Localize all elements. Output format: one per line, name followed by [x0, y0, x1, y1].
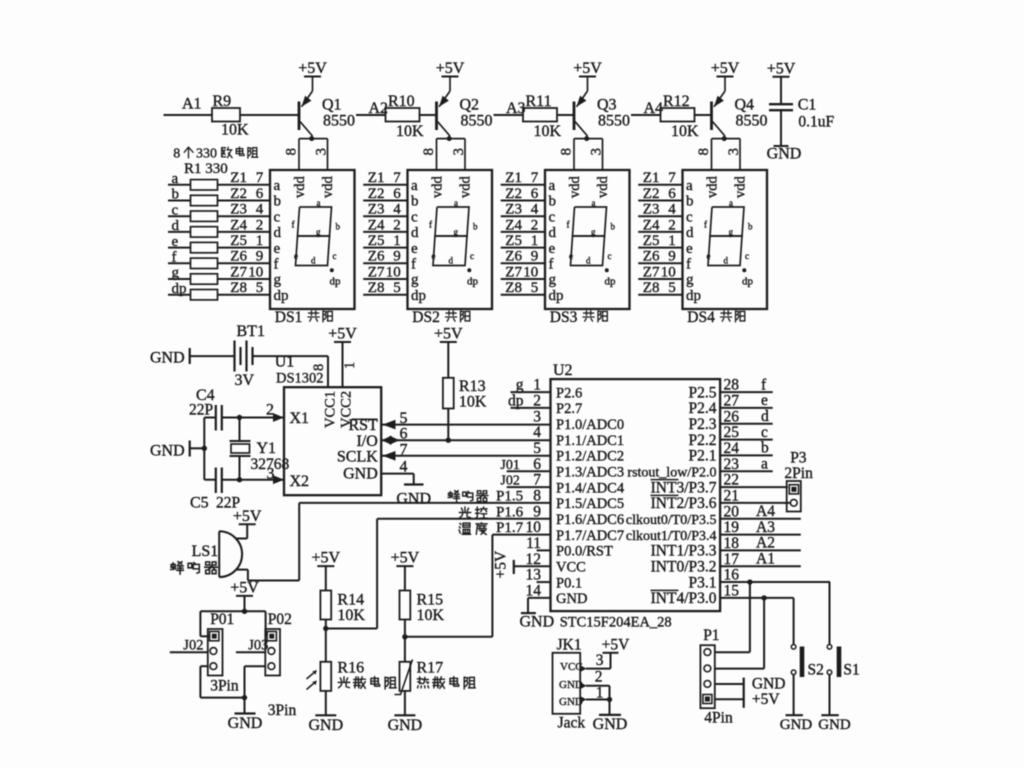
svg-text:d: d: [274, 225, 282, 241]
svg-text:f: f: [411, 257, 416, 273]
svg-text:10K: 10K: [459, 394, 487, 411]
svg-text:GND: GND: [559, 679, 583, 691]
svg-text:A4: A4: [644, 100, 664, 117]
svg-text:GND: GND: [752, 676, 786, 693]
svg-text:+5V: +5V: [312, 550, 341, 567]
svg-text:+5V: +5V: [434, 326, 463, 343]
svg-text:GND: GND: [150, 350, 185, 367]
svg-text:f: f: [429, 220, 432, 230]
svg-text:7: 7: [400, 441, 408, 458]
svg-text:dp: dp: [274, 288, 289, 304]
svg-text:e: e: [761, 392, 768, 409]
svg-text:e: e: [569, 251, 573, 261]
svg-text:c: c: [411, 209, 418, 225]
svg-text:a: a: [317, 198, 321, 208]
svg-text:c: c: [333, 251, 337, 261]
svg-text:a: a: [411, 178, 418, 194]
svg-text:a: a: [454, 198, 458, 208]
svg-text:P1.0/ADC0: P1.0/ADC0: [556, 417, 624, 433]
svg-text:b: b: [761, 440, 769, 457]
svg-text:dp: dp: [549, 288, 564, 304]
svg-text:GND: GND: [818, 717, 851, 733]
svg-text:dp: dp: [411, 288, 426, 304]
svg-text:8550: 8550: [736, 113, 768, 130]
svg-text:LS1: LS1: [192, 543, 219, 560]
svg-text:DS4: DS4: [687, 309, 715, 326]
svg-text:+5V: +5V: [233, 508, 262, 525]
svg-text:5: 5: [400, 410, 408, 427]
svg-text:GND: GND: [556, 591, 587, 607]
svg-text:d: d: [411, 225, 419, 241]
svg-text:b: b: [748, 222, 753, 232]
svg-text:c: c: [761, 424, 768, 441]
svg-text:0.1uF: 0.1uF: [798, 113, 834, 130]
svg-text:2: 2: [266, 402, 274, 419]
svg-text:dp: dp: [330, 276, 342, 288]
svg-text:g: g: [549, 272, 557, 288]
svg-text:vdd: vdd: [733, 176, 749, 199]
svg-text:8: 8: [284, 148, 300, 156]
svg-text:e: e: [432, 251, 436, 261]
svg-text:R13: R13: [459, 378, 486, 395]
svg-text:C5: C5: [190, 495, 209, 512]
svg-text:P3.1: P3.1: [689, 574, 717, 591]
svg-text:R17: R17: [417, 660, 444, 677]
svg-text:JK1: JK1: [557, 636, 582, 653]
svg-text:3: 3: [596, 652, 604, 669]
svg-text:5: 5: [533, 440, 541, 457]
svg-text:INT3/P3.7: INT3/P3.7: [651, 479, 717, 496]
svg-text:GND: GND: [388, 717, 423, 734]
svg-text:32768: 32768: [251, 456, 290, 473]
svg-text:g: g: [411, 272, 419, 288]
svg-text:8550: 8550: [323, 113, 355, 130]
svg-text:8: 8: [173, 147, 180, 162]
svg-text:P1.6/ADC6: P1.6/ADC6: [556, 512, 624, 528]
svg-text:8: 8: [311, 364, 327, 371]
svg-text:P0.0/RST: P0.0/RST: [556, 544, 613, 560]
svg-text:4: 4: [533, 424, 541, 441]
svg-text:Q1: Q1: [322, 97, 342, 114]
svg-text:3Pin: 3Pin: [268, 702, 297, 719]
svg-text:+5V: +5V: [436, 60, 465, 77]
svg-text:e: e: [707, 251, 711, 261]
svg-text:+5V: +5V: [328, 326, 357, 343]
svg-text:DS2: DS2: [412, 309, 440, 326]
svg-text:DS1302: DS1302: [276, 371, 324, 387]
svg-text:DS1: DS1: [275, 309, 303, 326]
svg-text:INT2/P3.6: INT2/P3.6: [651, 495, 717, 512]
svg-text:GND: GND: [520, 613, 555, 630]
svg-text:+5V: +5V: [493, 550, 510, 578]
svg-text:+5V: +5V: [767, 60, 796, 77]
svg-text:c: c: [470, 251, 474, 261]
svg-text:3: 3: [589, 148, 605, 156]
svg-text:R15: R15: [417, 592, 444, 609]
svg-text:g: g: [591, 227, 596, 237]
svg-text:C1: C1: [798, 96, 817, 113]
svg-text:vdd: vdd: [320, 176, 336, 199]
svg-text:A2: A2: [369, 100, 389, 117]
svg-text:+5V: +5V: [573, 60, 602, 77]
svg-text:+5V: +5V: [711, 60, 740, 77]
svg-text:rstout_low/P2.0: rstout_low/P2.0: [627, 465, 716, 480]
svg-text:3: 3: [726, 148, 742, 156]
svg-text:a: a: [729, 198, 733, 208]
svg-text:A2: A2: [756, 535, 775, 552]
svg-text:330: 330: [196, 147, 217, 162]
svg-text:P2.6: P2.6: [556, 385, 582, 401]
svg-text:R1 330: R1 330: [184, 161, 228, 177]
svg-text:vdd: vdd: [429, 176, 445, 199]
svg-text:GND: GND: [767, 146, 802, 163]
svg-text:DS3: DS3: [550, 309, 578, 326]
svg-text:10K: 10K: [534, 123, 562, 140]
svg-text:P1.3/ADC3: P1.3/ADC3: [556, 464, 624, 480]
svg-text:VCC1: VCC1: [323, 391, 339, 428]
svg-text:c: c: [608, 251, 612, 261]
svg-text:8: 8: [696, 148, 712, 156]
svg-text:GND: GND: [150, 443, 185, 460]
svg-text:R16: R16: [337, 660, 364, 677]
svg-text:b: b: [473, 222, 478, 232]
svg-text:g: g: [686, 272, 694, 288]
svg-text:INT4/P3.0: INT4/P3.0: [651, 590, 717, 607]
svg-text:P01: P01: [210, 611, 234, 628]
svg-text:STC15F204EA_28: STC15F204EA_28: [560, 614, 672, 630]
svg-text:2Pin: 2Pin: [784, 465, 813, 482]
svg-text:P02: P02: [268, 611, 292, 628]
svg-text:Q3: Q3: [597, 97, 617, 114]
svg-text:c: c: [686, 209, 693, 225]
svg-text:dp: dp: [467, 276, 479, 288]
svg-text:e: e: [686, 241, 693, 257]
svg-text:f: f: [274, 257, 279, 273]
svg-text:f: f: [292, 220, 295, 230]
svg-text:d: d: [549, 225, 557, 241]
svg-text:dp: dp: [742, 276, 754, 288]
svg-text:10K: 10K: [671, 123, 699, 140]
svg-text:S1: S1: [843, 662, 859, 679]
svg-text:A3: A3: [756, 519, 775, 536]
svg-text:dp: dp: [686, 288, 701, 304]
svg-text:SCLK: SCLK: [337, 449, 378, 466]
svg-text:BT1: BT1: [237, 323, 265, 340]
svg-text:P1.7/ADC7: P1.7/ADC7: [556, 528, 624, 544]
svg-text:P2.3: P2.3: [689, 416, 717, 433]
svg-text:P1.4/ADC4: P1.4/ADC4: [556, 480, 625, 496]
svg-text:GND: GND: [593, 716, 628, 733]
svg-text:g: g: [729, 227, 734, 237]
svg-text:d: d: [724, 256, 729, 266]
svg-text:4Pin: 4Pin: [704, 710, 733, 727]
svg-text:f: f: [549, 257, 554, 273]
svg-text:P1: P1: [703, 627, 719, 644]
svg-text:Jack: Jack: [558, 714, 586, 731]
svg-text:Y1: Y1: [257, 440, 277, 457]
svg-text:a: a: [761, 455, 768, 472]
svg-text:10K: 10K: [396, 123, 424, 140]
svg-text:4: 4: [400, 458, 408, 475]
svg-text:X1: X1: [290, 410, 310, 427]
svg-text:d: d: [449, 256, 454, 266]
svg-text:f: f: [567, 220, 570, 230]
svg-text:10K: 10K: [221, 122, 249, 139]
svg-text:vdd: vdd: [292, 176, 308, 199]
svg-text:22P: 22P: [189, 402, 213, 419]
svg-text:GND: GND: [559, 696, 583, 708]
svg-text:VCC: VCC: [556, 559, 586, 575]
svg-text:g: g: [274, 272, 282, 288]
svg-text:vdd: vdd: [458, 176, 474, 199]
svg-text:INT1/P3.3: INT1/P3.3: [651, 543, 717, 560]
svg-text:R11: R11: [526, 93, 552, 110]
svg-text:+5V: +5V: [298, 60, 327, 77]
svg-text:R14: R14: [337, 592, 364, 609]
svg-text:P2.4: P2.4: [689, 400, 717, 417]
svg-text:vdd: vdd: [704, 176, 720, 199]
svg-text:g: g: [316, 227, 321, 237]
svg-text:d: d: [586, 256, 591, 266]
svg-text:8550: 8550: [461, 113, 493, 130]
svg-text:3Pin: 3Pin: [210, 678, 239, 695]
svg-text:P2.5: P2.5: [689, 384, 717, 401]
svg-text:a: a: [274, 178, 281, 194]
svg-text:P2.2: P2.2: [689, 432, 717, 449]
svg-text:1: 1: [596, 685, 604, 702]
svg-text:3: 3: [451, 148, 467, 156]
svg-text:f: f: [761, 376, 767, 393]
svg-text:c: c: [745, 251, 749, 261]
svg-text:GND: GND: [343, 466, 378, 483]
svg-text:b: b: [274, 194, 282, 210]
svg-text:b: b: [549, 194, 557, 210]
svg-text:a: a: [686, 178, 693, 194]
svg-text:a: a: [549, 178, 556, 194]
svg-text:P2.7: P2.7: [556, 401, 582, 417]
svg-text:A3: A3: [506, 100, 526, 117]
svg-text:+5V: +5V: [752, 691, 780, 708]
svg-text:d: d: [311, 256, 316, 266]
svg-text:S2: S2: [808, 662, 824, 679]
svg-text:d: d: [761, 408, 769, 425]
svg-text:+5V: +5V: [602, 636, 630, 653]
svg-text:2: 2: [595, 668, 603, 685]
svg-text:b: b: [411, 194, 419, 210]
svg-text:e: e: [411, 241, 418, 257]
svg-text:A1: A1: [756, 550, 775, 567]
svg-text:INT0/P3.2: INT0/P3.2: [651, 558, 717, 575]
svg-text:c: c: [274, 209, 281, 225]
svg-text:d: d: [686, 225, 694, 241]
svg-text:e: e: [294, 251, 298, 261]
svg-text:GND: GND: [228, 715, 263, 732]
svg-text:f: f: [704, 220, 707, 230]
svg-text:e: e: [274, 241, 281, 257]
svg-text:GND: GND: [780, 717, 813, 733]
svg-text:VCC: VCC: [560, 661, 583, 673]
svg-text:U2: U2: [553, 362, 573, 379]
svg-text:GND: GND: [308, 717, 343, 734]
svg-text:b: b: [611, 222, 616, 232]
svg-text:P1.1/ADC1: P1.1/ADC1: [556, 433, 624, 449]
svg-text:1: 1: [342, 362, 358, 369]
svg-text:g: g: [454, 227, 459, 237]
svg-text:A4: A4: [756, 503, 775, 520]
svg-text:R9: R9: [213, 93, 232, 110]
svg-text:6: 6: [400, 426, 408, 443]
svg-text:clkout1/T0/P3.4: clkout1/T0/P3.4: [626, 529, 717, 544]
svg-text:P1.2/ADC2: P1.2/ADC2: [556, 449, 624, 465]
svg-text:8550: 8550: [598, 113, 630, 130]
svg-text:3V: 3V: [235, 372, 255, 389]
svg-text:R12: R12: [663, 93, 690, 110]
svg-text:R10: R10: [388, 93, 415, 110]
svg-text:P3: P3: [790, 449, 807, 466]
svg-text:P1.5/ADC5: P1.5/ADC5: [556, 496, 624, 512]
svg-text:X2: X2: [290, 473, 310, 490]
svg-text:3: 3: [314, 148, 330, 156]
svg-text:dp: dp: [605, 276, 617, 288]
svg-text:Q4: Q4: [735, 97, 755, 114]
svg-text:8: 8: [559, 148, 575, 156]
svg-text:J02: J02: [183, 638, 203, 654]
svg-text:I/O: I/O: [356, 433, 377, 450]
svg-text:b: b: [686, 194, 694, 210]
svg-text:b: b: [336, 222, 341, 232]
svg-text:10K: 10K: [417, 607, 445, 624]
svg-text:8: 8: [421, 148, 437, 156]
svg-text:clkout0/T0/P3.5: clkout0/T0/P3.5: [626, 513, 717, 528]
svg-text:+5V: +5V: [230, 579, 259, 596]
svg-text:3: 3: [533, 408, 541, 425]
svg-text:vdd: vdd: [595, 176, 611, 199]
svg-text:P0.1: P0.1: [556, 575, 582, 591]
svg-text:a: a: [592, 198, 596, 208]
svg-text:P2.1: P2.1: [689, 448, 717, 465]
svg-text:e: e: [549, 241, 556, 257]
svg-text:c: c: [549, 209, 556, 225]
svg-text:10K: 10K: [337, 607, 365, 624]
svg-text:+5V: +5V: [391, 550, 420, 567]
svg-text:vdd: vdd: [567, 176, 583, 199]
svg-text:A1: A1: [182, 96, 202, 113]
svg-text:Q2: Q2: [460, 97, 480, 114]
svg-text:f: f: [686, 257, 691, 273]
svg-text:GND: GND: [396, 491, 431, 508]
svg-text:J03: J03: [248, 638, 268, 654]
